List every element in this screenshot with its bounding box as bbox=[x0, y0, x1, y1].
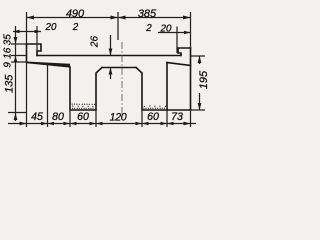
svg-text:2: 2 bbox=[72, 22, 79, 33]
svg-text:20: 20 bbox=[160, 24, 172, 35]
svg-text:60: 60 bbox=[77, 111, 89, 123]
svg-text:9: 9 bbox=[3, 62, 14, 68]
svg-text:135: 135 bbox=[4, 74, 16, 93]
svg-text:195: 195 bbox=[198, 70, 210, 89]
svg-text:385: 385 bbox=[138, 8, 157, 20]
svg-text:20: 20 bbox=[45, 22, 57, 33]
svg-text:16: 16 bbox=[3, 47, 14, 59]
svg-text:35: 35 bbox=[3, 34, 14, 46]
svg-text:80: 80 bbox=[52, 111, 64, 123]
svg-text:2: 2 bbox=[145, 23, 152, 34]
svg-text:120: 120 bbox=[110, 111, 127, 123]
svg-text:60: 60 bbox=[147, 111, 159, 123]
svg-text:490: 490 bbox=[66, 8, 85, 20]
svg-text:45: 45 bbox=[31, 111, 43, 123]
svg-text:26: 26 bbox=[90, 36, 101, 49]
svg-text:73: 73 bbox=[171, 111, 183, 123]
